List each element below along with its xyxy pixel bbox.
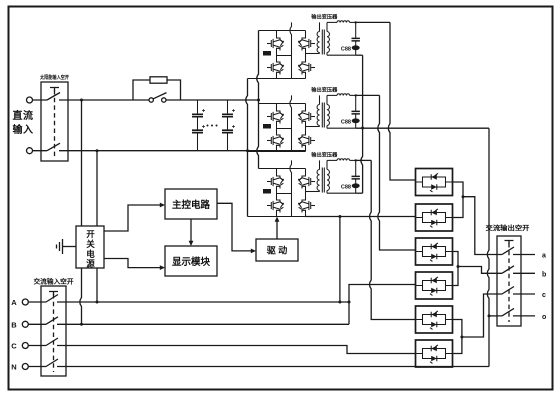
svg-text:交流输出空开: 交流输出空开 (486, 223, 531, 232)
svg-text:输入: 输入 (13, 123, 34, 136)
svg-text:直流: 直流 (13, 109, 34, 122)
svg-text:驱 动: 驱 动 (267, 246, 288, 256)
svg-text:a: a (542, 253, 546, 260)
svg-text:太阳能输入空开: 太阳能输入空开 (39, 74, 69, 81)
svg-text:交流输入空开: 交流输入空开 (34, 277, 75, 286)
svg-text:源: 源 (86, 259, 95, 269)
svg-text:B: B (11, 320, 17, 329)
svg-text:b: b (542, 271, 546, 278)
svg-text:o: o (542, 314, 546, 321)
svg-text:主控电路: 主控电路 (172, 199, 211, 211)
svg-text:C: C (11, 342, 17, 351)
svg-text:开: 开 (86, 229, 95, 239)
svg-text:c: c (542, 292, 546, 299)
svg-text:N: N (11, 363, 16, 372)
svg-text:A: A (11, 298, 17, 307)
svg-text:电: 电 (86, 249, 95, 259)
svg-text:显示模块: 显示模块 (172, 256, 211, 268)
svg-text:关: 关 (86, 239, 95, 249)
